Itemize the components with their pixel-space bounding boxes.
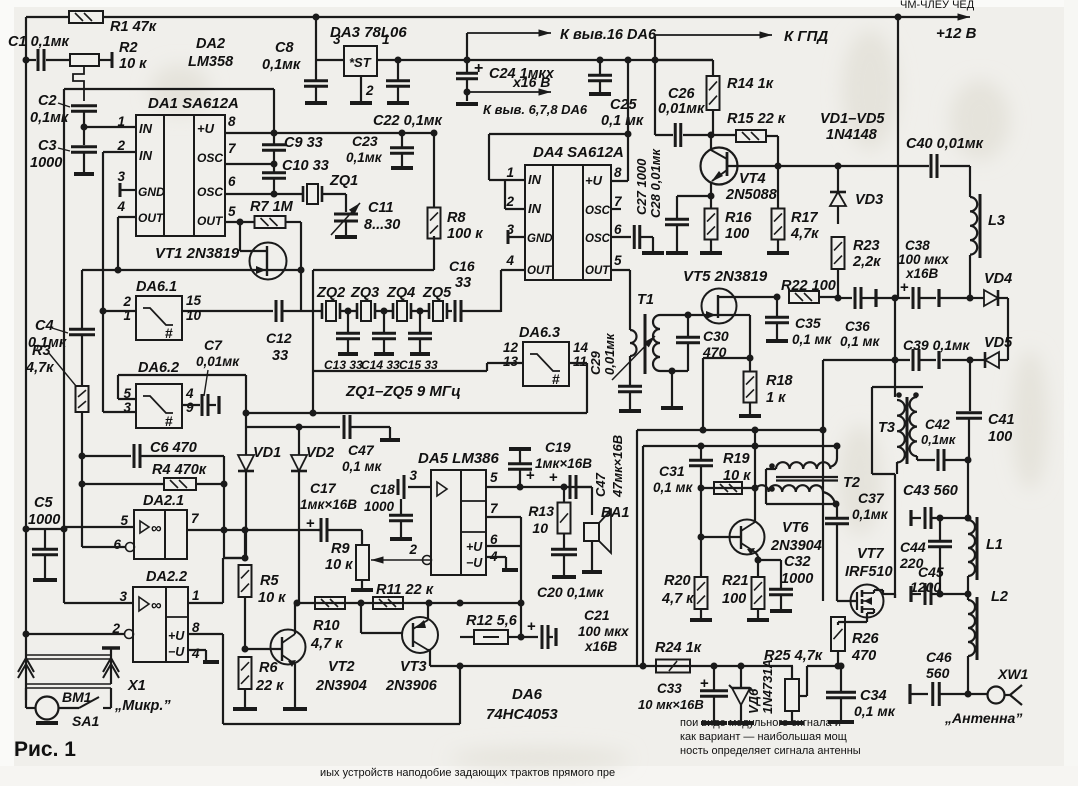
wire VD1 top [245,375,247,455]
svg-text:С31: С31 [659,463,685,479]
wire R24 rail right part [807,665,841,667]
svg-text:DA6.1: DA6.1 [136,279,177,295]
svg-text:R24 1к: R24 1к [655,640,702,656]
svg-text:С1 0,1мк: С1 0,1мк [8,34,69,50]
svg-text:DA6.2: DA6.2 [138,360,179,376]
svg-text:+U: +U [168,629,185,643]
svg-text:1мк×16В: 1мк×16В [535,456,592,471]
node y603 end [518,600,525,607]
node R10-R11 [358,600,365,607]
svg-text:R9: R9 [331,541,350,557]
svg-text:3: 3 [409,468,417,483]
svg-text:R26: R26 [852,631,880,647]
svg-text:VD5: VD5 [984,335,1013,351]
svg-text:+U: +U [466,540,483,554]
wire C39 row [823,359,910,361]
node C43 [965,515,972,522]
ground DA1 pin3 [120,189,136,191]
svg-text:4: 4 [505,253,514,268]
node C36-C38 [892,295,899,302]
svg-text:VT4: VT4 [739,171,766,187]
svg-text:Т1: Т1 [637,292,654,308]
svg-text:1000: 1000 [28,512,60,528]
svg-text:С47: С47 [348,442,375,458]
svg-text:С19: С19 [545,439,571,455]
svg-text:2N3904: 2N3904 [770,538,822,554]
wiper R25 [799,695,807,697]
svg-text:6: 6 [113,537,121,552]
svg-text:5: 5 [614,253,622,268]
svg-text:R8: R8 [447,210,466,226]
node C15 [417,308,424,315]
wire DA2.2 pin3 [64,602,133,604]
svg-text:+: + [549,469,558,486]
svg-text:иых устройств наподобие зад: иых устройств наподобие задающих трактов… [320,767,615,779]
wire bus bottom [223,723,460,725]
svg-text:+12 В: +12 В [936,25,977,42]
svg-text:4: 4 [191,646,200,661]
svg-text:33: 33 [455,275,471,291]
bottom caption ghost text moved to background [900,0,975,11]
svg-text:10 мк×16В: 10 мк×16В [638,697,704,712]
wire DA6.2 pin5 [118,398,136,400]
node VD3 top [835,163,842,170]
svg-text:13: 13 [503,354,519,369]
svg-text:R11 22 к: R11 22 к [376,582,434,598]
svg-text:С27 1000: С27 1000 [634,158,649,215]
wire C6-R4 right [223,456,225,484]
wire DA6.3 pin13 [487,362,523,364]
node x301 [298,267,305,274]
svg-text:DA6.3: DA6.3 [519,325,560,341]
wire DA1 pin8 to C22 rail [225,132,434,134]
capacitor C23 [399,130,406,137]
node C9 top [271,130,278,137]
node x823 y430 [820,427,827,434]
node C6 left [79,453,86,460]
svg-text:IN: IN [139,148,153,163]
svg-text:VD1–VD5: VD1–VD5 [820,111,885,127]
node C9-C10 [271,161,278,168]
wire +12V top rail [26,16,70,18]
svg-text:„Антенна”: „Антенна” [944,710,1022,726]
svg-text:8: 8 [228,114,236,129]
svg-text:1: 1 [382,32,390,47]
svg-text:0,1 мк: 0,1 мк [601,113,644,129]
node R22 left [774,294,781,301]
svg-text:DA2.2: DA2.2 [146,569,187,585]
node C13 [345,308,352,315]
svg-text:10: 10 [186,308,202,323]
svg-text:Рис. 1: Рис. 1 [14,738,76,761]
svg-text:2: 2 [408,542,417,557]
svg-text:С16: С16 [449,258,475,274]
svg-text:GND: GND [527,233,553,245]
svg-text:как вариант — наибольшая мощ: как вариант — наибольшая мощ [680,731,847,743]
svg-text:С32: С32 [784,554,811,570]
wire DA4 pin5 to T1 [611,269,630,271]
svg-text:R12 5,6: R12 5,6 [466,613,518,629]
wire DA6.1 in [103,310,136,312]
svg-text:∞: ∞ [151,520,162,537]
wire C17 to R9 [361,530,363,545]
wire x755 from y430 [754,430,756,488]
svg-text:ZQ4: ZQ4 [386,285,415,301]
wire T1 sec bottom [660,370,688,372]
node VD5 [967,357,974,364]
wire +12 to T3 [894,298,896,397]
node x628 [625,131,632,138]
svg-text:2N5088: 2N5088 [725,187,778,203]
svg-text:#: # [165,413,173,429]
node T1 bottom [669,368,676,375]
svg-text:R5: R5 [260,573,279,589]
svg-text:1 к: 1 к [766,390,786,406]
ground DA4 pin3 [508,236,525,238]
svg-text:#: # [552,371,560,387]
svg-text:4,7 к: 4,7 к [310,636,343,652]
svg-text:R18: R18 [766,373,794,389]
svg-text:2: 2 [122,294,131,309]
wire DA4 pin2 [505,208,525,210]
node L3 VD4 [967,295,974,302]
svg-text:6: 6 [614,222,622,237]
node T2 in [752,485,759,492]
wire T3 sec to C42 [917,459,935,461]
svg-text:3: 3 [119,589,127,604]
svg-text:L2: L2 [991,589,1008,605]
node pin6 [271,191,278,198]
svg-text:VT5 2N3819: VT5 2N3819 [683,268,768,285]
svg-text:L1: L1 [986,537,1003,553]
node VT4 emitter [708,193,715,200]
wire pin7 to R5 [223,530,225,558]
svg-text:0,1 мк: 0,1 мк [854,703,896,719]
wire DA5 pin5 [486,486,592,488]
wire VT7 drain riser [894,474,896,598]
node C31 top [698,443,705,450]
svg-text:11: 11 [573,354,587,369]
svg-text:74НС4053: 74НС4053 [486,706,558,723]
svg-text:ZQ5: ZQ5 [422,285,452,301]
wire +12 to DA3 [313,14,320,21]
wire pin5 [64,526,134,528]
node VD1 cross [242,527,249,534]
svg-text:R1 47к: R1 47к [110,19,157,35]
node VT5 source [747,355,754,362]
node x313 [310,410,317,417]
wiper R9 [371,559,430,561]
svg-text:С18: С18 [370,482,395,497]
node VT3 emitter top [426,600,433,607]
wire +6V rail from DA3 pin1 [377,59,713,61]
wire DA2.2 pin8 drop [222,634,224,724]
wire DA5 pin7 [486,516,521,518]
node VD6 [738,663,745,670]
svg-text:С8: С8 [275,40,294,56]
svg-text:R20: R20 [664,573,691,589]
svg-text:С46: С46 [926,649,952,665]
svg-text:С20 0,1мк: С20 0,1мк [537,584,604,600]
capacitor C15 [419,311,421,332]
svg-text:470: 470 [851,648,876,664]
node VT2 base [242,646,249,653]
wire R7 right down [300,222,302,270]
svg-text:1N4731А: 1N4731А [760,659,775,714]
pin 7 stub [611,208,621,210]
wire DA2.2 pin8 [188,633,223,635]
node C33 [711,663,718,670]
svg-text:С2: С2 [38,93,57,109]
svg-text:1000: 1000 [781,571,813,587]
node DA6.1 in [100,308,107,315]
svg-text:ZQ2: ZQ2 [316,285,345,301]
arrow +12V [940,16,970,18]
svg-text:6: 6 [228,174,236,189]
svg-text:С26: С26 [668,86,696,102]
svg-text:OUT: OUT [197,214,224,228]
svg-text:5: 5 [490,470,498,485]
svg-text:3: 3 [117,169,125,184]
svg-text:10: 10 [532,520,548,536]
svg-text:С9 33: С9 33 [284,135,323,151]
svg-text:Т2: Т2 [843,475,860,491]
wire VT3 base [360,603,362,633]
svg-text:К выв. 6,7,8 DA6: К выв. 6,7,8 DA6 [483,102,588,117]
svg-text:1: 1 [506,165,514,180]
svg-text:0,01мк: 0,01мк [658,101,705,117]
svg-text:ность определяет сигнала ан: ность определяет сигнала антенны [680,745,861,757]
svg-text:1N4148: 1N4148 [826,127,878,143]
svg-text:R25 4,7к: R25 4,7к [764,648,823,664]
wire VT1 source y270 [82,269,301,271]
svg-text:100 мкх: 100 мкх [578,624,629,639]
svg-text:VD3: VD3 [855,192,883,208]
svg-text:*ST: *ST [349,55,372,70]
svg-text:R21: R21 [722,573,749,589]
svg-text:R13: R13 [528,503,554,519]
wire DA2.2 pin2 [125,630,134,639]
svg-text:100: 100 [722,591,746,607]
svg-text:GND: GND [138,185,165,199]
wire DA6.2 pin3 [103,411,136,413]
svg-text:22 к: 22 к [255,678,284,694]
node VD1 [243,410,250,417]
svg-text:100 к: 100 к [447,226,483,242]
svg-text:LM358: LM358 [188,54,234,70]
svg-text:Х1: Х1 [127,678,146,694]
svg-text:0,1мк: 0,1мк [921,432,957,447]
node R5 top [242,555,249,562]
trimmer arrow T1 [612,336,655,380]
svg-text:5: 5 [228,204,236,219]
node VD2 R10 [294,600,301,607]
resistor R2 potentiometer [70,54,99,66]
node VT6 base [698,534,705,541]
node C1 junction [23,57,30,64]
node R22-R23 [835,295,842,302]
wire R8 loop [433,236,435,270]
wire VT7 source to R26 [866,613,868,622]
node +6 a [395,57,402,64]
svg-text:0,1 мк: 0,1 мк [653,480,694,495]
wire C5 link [26,528,64,530]
svg-text:С3: С3 [38,138,57,154]
wire VD4-VD5 link [1007,298,1009,360]
svg-text:∞: ∞ [151,597,162,614]
svg-text:VD4: VD4 [984,271,1012,287]
svg-text:„Микр.”: „Микр.” [114,698,171,714]
svg-text:С22 0,1мк: С22 0,1мк [373,113,443,129]
svg-text:С45: С45 [918,564,944,580]
wire DA4 pin8 [611,180,628,182]
svg-text:2N3904: 2N3904 [315,678,367,694]
svg-text:С25: С25 [610,97,638,113]
svg-text:DA2.1: DA2.1 [143,493,184,509]
svg-text:0,1мк: 0,1мк [852,507,889,522]
resistor R1 [69,11,103,23]
svg-text:VT6: VT6 [782,520,810,536]
svg-text:R10: R10 [313,618,340,634]
wire y446 T2 top [643,445,837,447]
svg-text:С47: С47 [593,472,608,497]
svg-text:100: 100 [988,429,1012,445]
svg-text:VT1 2N3819: VT1 2N3819 [155,245,240,262]
wire x637 down [636,430,638,666]
svg-text:−U: −U [168,645,185,659]
svg-text:С6 470: С6 470 [150,440,197,456]
svg-text:Т3: Т3 [878,420,895,436]
wire DA2.1 pin7 output [187,529,320,531]
svg-text:DA1 SA612A: DA1 SA612A [148,95,239,112]
svg-text:SA1: SA1 [72,713,99,729]
wire DA4 pin4 from C16 [501,269,525,271]
svg-text:2,2к: 2,2к [852,254,881,270]
svg-text:2: 2 [505,194,514,209]
svg-text:#: # [165,325,173,341]
svg-text:К выв.16 DA6: К выв.16 DA6 [560,27,657,43]
svg-text:OUT: OUT [585,265,610,277]
node T2 C37 [833,501,840,508]
svg-text:IN: IN [528,201,542,216]
wire +12V branch К ГПД [652,57,659,64]
node R24 left [640,663,647,670]
wire T2 left lead [701,487,755,489]
node VT4 base [708,132,715,139]
svg-text:R17: R17 [791,210,819,226]
svg-text:VT7: VT7 [857,546,885,562]
svg-text:8: 8 [192,620,200,635]
svg-text:0,01мк: 0,01мк [602,332,617,375]
svg-text:DA6: DA6 [512,686,543,703]
svg-text:10 к: 10 к [258,590,286,606]
svg-text:OUT: OUT [527,265,552,277]
svg-text:8: 8 [614,165,622,180]
wire rail x64 [63,89,65,527]
svg-text:С41: С41 [988,412,1015,428]
node VD2 top [296,424,303,431]
node +12 down [895,14,902,21]
node x895 [892,357,899,364]
svg-text:С34: С34 [860,688,887,704]
wire DA4 pin1 rail [489,133,628,135]
svg-text:2N3906: 2N3906 [385,678,438,694]
svg-text:12: 12 [503,340,519,355]
svg-text:OSC: OSC [197,185,223,199]
svg-text:47мк×16В: 47мк×16В [610,435,625,498]
svg-text:2: 2 [365,83,374,98]
node R19 left [698,485,705,492]
wire left rail x26 [25,17,27,60]
wire R2 wiper jog to C2 [73,66,84,101]
wire x103 down [102,311,104,412]
svg-text:ZQ3: ZQ3 [350,285,379,301]
svg-text:С23: С23 [352,133,378,149]
wire DA1 pin2 [103,151,136,153]
svg-text:OSC: OSC [585,233,611,245]
svg-text:0,01мк: 0,01мк [196,354,240,369]
svg-text:R2: R2 [119,40,138,56]
svg-text:IN: IN [139,121,153,136]
svg-text:DA3 78L06: DA3 78L06 [330,24,407,41]
wire DA1 pin4 [118,216,136,218]
svg-text:4,7 к: 4,7 к [661,591,694,607]
wire T1 sec top [660,314,702,316]
node bus drop [457,663,464,670]
svg-text:OUT: OUT [138,211,165,225]
node C14 [381,308,388,315]
svg-text:С12: С12 [266,330,292,346]
capacitor C14 [383,311,385,332]
svg-text:1000: 1000 [364,499,395,514]
svg-text:С28 0,01мк: С28 0,01мк [648,148,663,218]
svg-text:DA5 LM386: DA5 LM386 [418,450,500,467]
svg-text:3: 3 [333,32,341,47]
svg-text:15: 15 [186,293,202,308]
svg-text:0,1 мк: 0,1 мк [840,334,881,349]
svg-text:−U: −U [466,556,483,570]
svg-text:х16В: х16В [905,266,939,281]
node VT4 collector [775,163,782,170]
svg-text:0,1 мк: 0,1 мк [342,459,383,474]
wire x643 down [642,446,644,666]
svg-text:10 к: 10 к [119,56,147,72]
wire DA1 pin6 [225,193,303,195]
svg-text:+: + [900,279,909,296]
svg-text:4: 4 [116,199,125,214]
svg-text:VT3: VT3 [400,659,427,675]
svg-text:ВА1: ВА1 [601,505,629,521]
node R13 top [561,484,568,491]
svg-text:R7 1М: R7 1М [250,199,294,215]
node C2-C3 [81,124,88,131]
svg-text:L3: L3 [988,213,1005,229]
svg-text:IRF510: IRF510 [845,564,893,580]
svg-text:ZQ1–ZQ5 9 МГц: ZQ1–ZQ5 9 МГц [345,383,461,400]
wire x823 down [822,360,824,601]
svg-text:R4 470к: R4 470к [152,462,207,478]
wire DA1 pin1 [84,126,136,128]
svg-text:R6: R6 [259,660,278,676]
svg-text:0,1мк: 0,1мк [262,57,301,73]
svg-text:5: 5 [120,513,128,528]
ground DA2.2 pin4 [188,649,206,651]
svg-text:1мк×16В: 1мк×16В [300,497,357,512]
wire DA6.3 pin11 drop [586,363,588,413]
svg-text:OSC: OSC [197,151,223,165]
svg-text:ZQ1: ZQ1 [329,173,358,189]
svg-text:+: + [527,618,536,635]
